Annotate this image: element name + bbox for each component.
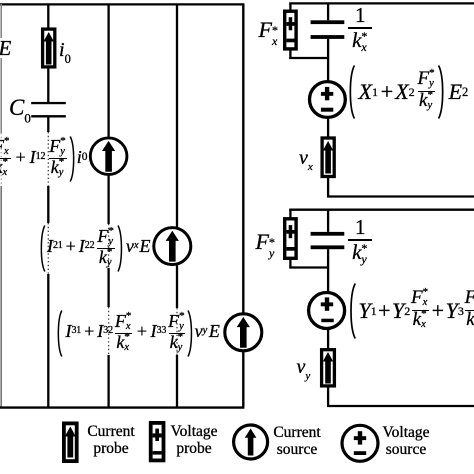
voltage probe Fx	[285, 11, 296, 49]
formula (X1 + X2 Fy*/ky*) E2	[346, 64, 469, 119]
wire probe vy to bottom rail	[327, 386, 329, 406]
current probe i0	[43, 29, 55, 67]
wire left edge branch E	[0, 4, 2, 407]
capacitor 1/kx	[311, 20, 345, 39]
label Fy* (voltage probe)	[256, 229, 276, 256]
value label 1/kx*	[348, 2, 373, 54]
wire parallel bottom (upper-right)	[289, 57, 328, 59]
wire branch B upper	[107, 4, 109, 137]
current probe vy	[322, 350, 335, 386]
legend icon current source	[234, 425, 268, 459]
wire top bus (left circuit)	[0, 3, 244, 5]
legend icon voltage source	[342, 425, 378, 461]
wire capacitor to voltage source (lower-right)	[327, 249, 329, 292]
formula (Y1 + Y2 Fx*/kx* + Y3 F../k..)	[346, 283, 474, 339]
value label vx	[299, 147, 313, 173]
value label 1/ky*	[348, 214, 373, 266]
voltage source VSy	[309, 293, 345, 329]
wire bottom rail (lower-right circuit)	[327, 405, 474, 407]
label Fx* (voltage probe)	[259, 17, 279, 44]
wire capacitor to voltage source (upper-right)	[327, 39, 329, 81]
formula row 3: (I31 + I32 Fx*/kx* + I33 Fy*/ky*) vy E	[55, 307, 220, 360]
wire branch B lower	[107, 176, 109, 408]
wire stub to voltage probe Fx	[289, 3, 291, 11]
wire stub to voltage probe Fy	[289, 209, 291, 218]
capacitor 1/ky	[311, 232, 345, 249]
current source CS2	[154, 228, 191, 265]
wire branch C upper	[176, 4, 178, 228]
formula row 1: (I11 + I12 Fy*/ky*) i0	[0, 132, 87, 185]
wire branch A: probe to C0	[47, 67, 49, 102]
value label i0	[59, 39, 71, 67]
wire branch C lower	[176, 265, 178, 408]
current source CS3	[225, 314, 262, 351]
formula row 2: (I21 + I22 Fy*/ky*) vx E	[38, 222, 151, 275]
value label vy	[297, 356, 311, 382]
wire parallel bottom (lower-right)	[289, 266, 328, 268]
legend text voltage source	[377, 424, 435, 458]
capacitor C0	[31, 102, 66, 118]
wire top rail (lower-right circuit)	[289, 209, 474, 211]
current probe vx	[322, 138, 334, 177]
wire capacitor stem top (lower-right)	[327, 210, 329, 232]
wire voltage source to probe vy	[327, 329, 329, 350]
wire voltage source to probe vx	[327, 118, 329, 139]
voltage source VSx	[310, 82, 346, 118]
legend text voltage probe	[168, 423, 220, 457]
value label C0	[9, 95, 31, 127]
node label E	[0, 36, 11, 61]
wire branch D right edge upper	[242, 4, 244, 313]
legend text current source	[267, 424, 327, 458]
current source CS1	[90, 138, 127, 175]
wire branch A top (to current probe i0)	[47, 4, 49, 28]
voltage probe Fy	[285, 219, 296, 258]
wire capacitor stem top (upper-right)	[327, 3, 329, 20]
legend text current probe	[83, 423, 139, 457]
wire branch D right edge lower	[242, 352, 244, 408]
legend icon current probe	[64, 423, 77, 461]
wire probe vx to bottom rail	[327, 177, 329, 197]
wire stub below probe Fy	[289, 260, 291, 269]
wire bottom bus (left circuit)	[0, 406, 244, 408]
wire stub below probe Fx	[289, 51, 291, 60]
wire bottom rail (upper-right circuit)	[327, 195, 474, 197]
wire branch A below C0	[47, 117, 49, 407]
wire top rail (upper-right circuit)	[289, 2, 474, 4]
legend icon voltage probe	[151, 423, 164, 461]
